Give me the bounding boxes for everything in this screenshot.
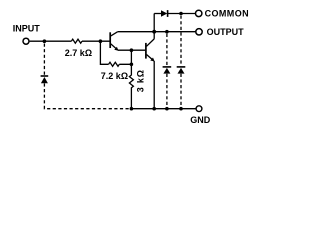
wire: node A down to R2	[100, 41, 108, 64]
OUTPUT terminal	[196, 29, 202, 35]
wire: bottom rail	[131, 108, 196, 110]
wire: dashed from D4 to bottom rail	[180, 74, 182, 107]
wire: dashed from output row down to D3	[166, 34, 168, 66]
wire: dashed from D1 to bottom rail	[44, 83, 131, 108]
wire: Q2 emitter down	[153, 61, 155, 109]
diode D4 (gnd to common, dashed leads)	[177, 67, 186, 74]
wire: vertical from output node to diode / Q2 collector	[153, 14, 155, 39]
diode D1 (input clamp)	[41, 76, 49, 83]
node A (Q1 base node)	[99, 39, 103, 43]
node: output rail junctions	[152, 30, 156, 34]
diode D3 (gnd to output, dashed leads)	[163, 67, 172, 74]
wire: common row (diode anode side)	[154, 13, 161, 15]
wire: dashed from common junction down to D4	[180, 16, 182, 66]
wire: Q1 emitter row to Q2 base	[118, 49, 145, 51]
svg-text:GND: GND	[190, 115, 211, 125]
resistor R3 3kΩ (vertical)	[129, 64, 133, 108]
node: bottom rail junctions	[130, 107, 134, 111]
svg-text:7.2 kΩ: 7.2 kΩ	[101, 71, 128, 81]
wire: input row	[30, 40, 110, 42]
INPUT terminal	[23, 38, 29, 44]
COMMON terminal	[196, 10, 202, 16]
wire: node B vertical	[130, 50, 132, 64]
wire: dashed from D3 to bottom rail	[166, 74, 168, 107]
svg-text:2.7 kΩ: 2.7 kΩ	[65, 48, 92, 58]
node: common row junction	[179, 12, 183, 16]
svg-text:OUTPUT: OUTPUT	[207, 27, 245, 37]
node: input junction	[43, 39, 47, 43]
svg-text:COMMON: COMMON	[205, 9, 249, 19]
GND terminal	[196, 106, 202, 112]
node: Q1 emitter / R2 top junctions	[130, 48, 134, 52]
resistor R1 2.7kΩ	[71, 39, 82, 43]
resistor R2 7.2kΩ	[109, 62, 132, 66]
wire: output rail	[118, 31, 196, 33]
wire: common row to terminal	[168, 13, 196, 15]
transistor Q2	[146, 39, 155, 62]
svg-text:INPUT: INPUT	[13, 24, 41, 34]
diode D2 (output to common)	[161, 10, 168, 17]
svg-text:3 kΩ: 3 kΩ	[136, 69, 146, 92]
transistor Q1	[110, 32, 118, 51]
wire: dashed drop from input node	[43, 44, 45, 76]
